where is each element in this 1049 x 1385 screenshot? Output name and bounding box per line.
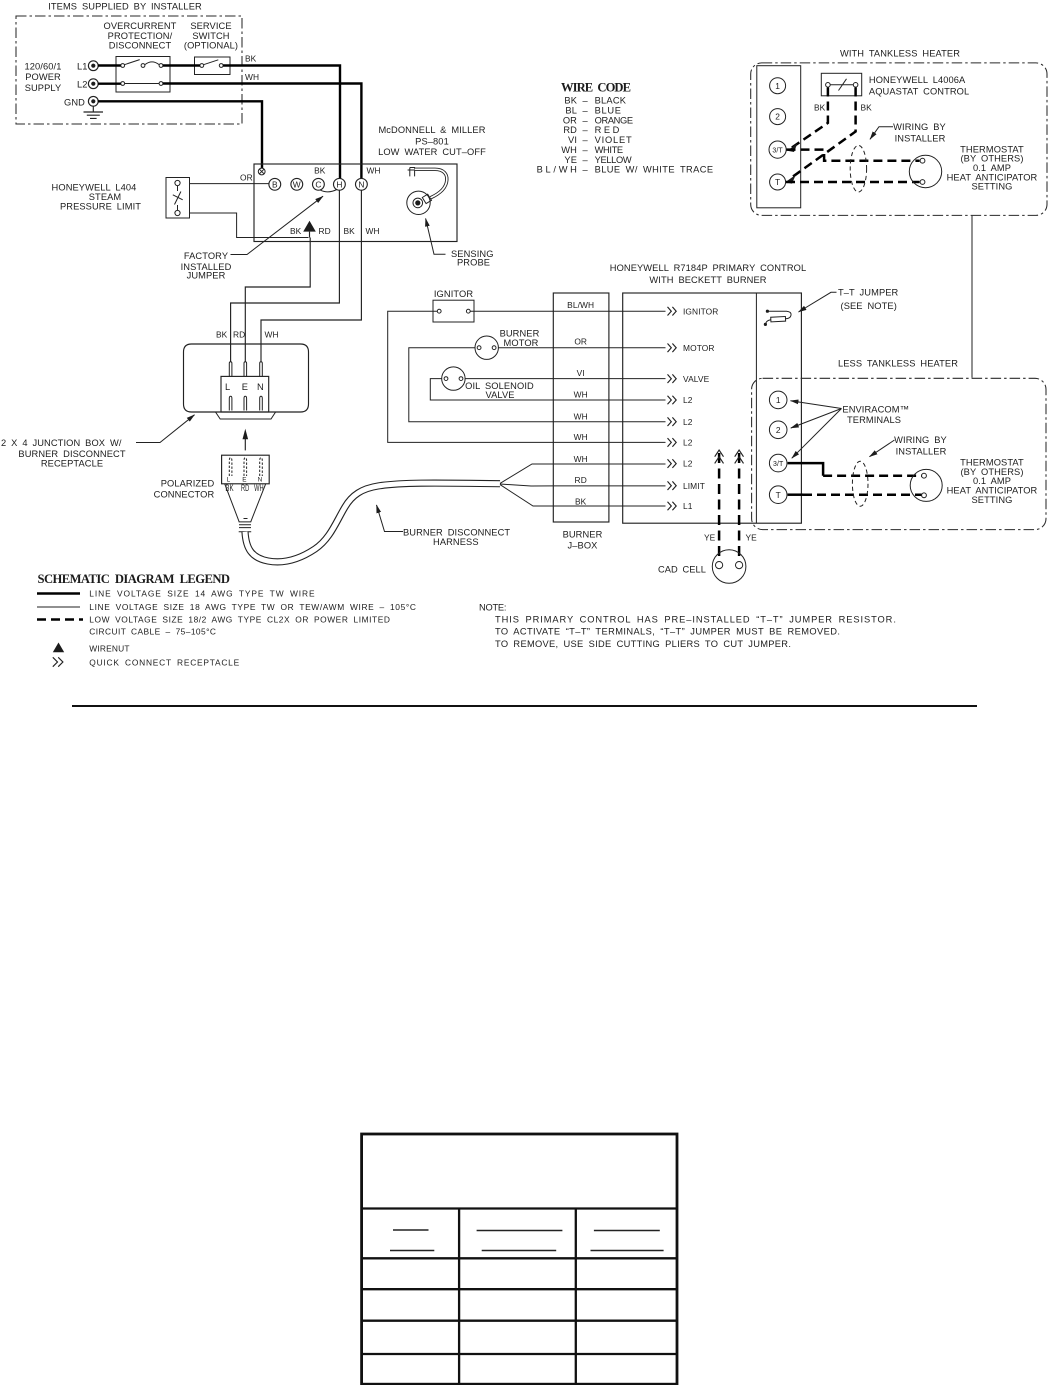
svg-text:TO ACTIVATE “T–T” TERMINALS, “: TO ACTIVATE “T–T” TERMINALS, “T–T” JUMPE…	[495, 627, 840, 637]
svg-text:BK: BK	[564, 96, 577, 106]
svg-text:H: H	[336, 179, 342, 189]
svg-text:T–T JUMPER: T–T JUMPER	[838, 288, 899, 298]
wire L2 thick	[98, 84, 362, 179]
svg-text:–: –	[583, 155, 589, 165]
svg-text:ENVIRACOM™: ENVIRACOM™	[842, 405, 909, 415]
oil solenoid valve	[442, 367, 465, 390]
svg-text:WIRENUT: WIRENUT	[89, 644, 129, 654]
svg-text:L2: L2	[683, 395, 693, 405]
wire T to thermostat (tankless)	[786, 181, 920, 184]
svg-text:INSTALLER: INSTALLER	[895, 134, 946, 144]
terminal C	[313, 178, 325, 190]
svg-text:CONNECTOR: CONNECTOR	[154, 490, 215, 500]
svg-text:BK: BK	[861, 103, 873, 113]
pressure limit switch U-L404	[166, 178, 190, 219]
svg-text:–: –	[583, 115, 589, 125]
svg-text:BURNER: BURNER	[500, 329, 540, 339]
svg-text:–: –	[583, 165, 589, 175]
svg-text:WHITE: WHITE	[595, 145, 624, 155]
strain relief	[239, 519, 252, 532]
svg-text:DISCONNECT: DISCONNECT	[109, 41, 172, 51]
svg-text:YELLOW: YELLOW	[595, 155, 632, 165]
svg-text:L1: L1	[683, 501, 693, 511]
svg-text:L2: L2	[683, 459, 693, 469]
svg-text:INSTALLER: INSTALLER	[896, 447, 947, 457]
svg-text:BL: BL	[565, 106, 577, 116]
svg-text:RD: RD	[575, 475, 587, 485]
svg-text:3/T: 3/T	[772, 148, 783, 155]
svg-text:1: 1	[776, 395, 781, 405]
svg-text:VALVE: VALVE	[485, 390, 514, 400]
svg-text:WH: WH	[245, 72, 259, 82]
svg-text:OR: OR	[574, 337, 587, 347]
mating arrow	[244, 439, 246, 451]
wire WH below N to junction box	[261, 190, 361, 362]
receptacle block	[221, 376, 269, 412]
svg-text:POLARIZED: POLARIZED	[161, 479, 215, 489]
svg-text:OVERCURRENT: OVERCURRENT	[104, 21, 177, 31]
legend thin line sample	[37, 606, 80, 608]
svg-text:L2: L2	[683, 417, 693, 427]
svg-text:VI: VI	[568, 135, 577, 145]
terminal T (less)	[769, 486, 787, 504]
legend wirenut symbol	[53, 643, 64, 653]
svg-text:BK: BK	[575, 496, 587, 506]
service switch box	[195, 57, 231, 75]
svg-text:WIRING BY: WIRING BY	[894, 435, 947, 445]
wire BK below H to junction box	[231, 190, 340, 362]
svg-text:(OPTIONAL): (OPTIONAL)	[184, 41, 238, 51]
svg-text:BL/WH: BL/WH	[567, 300, 594, 310]
svg-text:CIRCUIT CABLE – 75–105°C: CIRCUIT CABLE – 75–105°C	[89, 627, 216, 637]
svg-text:N: N	[358, 179, 364, 189]
svg-text:BK: BK	[245, 54, 257, 64]
svg-text:TERMINALS: TERMINALS	[847, 415, 901, 425]
wire 3/T to thermostat (less)	[788, 463, 824, 476]
quick connect VALVE	[668, 374, 677, 383]
thermostat (less)	[910, 469, 942, 501]
svg-text:SWITCH: SWITCH	[192, 31, 229, 41]
svg-text:HARNESS: HARNESS	[433, 537, 479, 547]
svg-text:VI: VI	[577, 368, 585, 378]
svg-text:SETTING: SETTING	[972, 182, 1013, 192]
svg-text:T: T	[776, 490, 781, 500]
leader from sensing probe	[426, 219, 446, 255]
installer boundary box	[16, 16, 242, 124]
svg-text:–: –	[583, 106, 589, 116]
svg-text:–: –	[583, 125, 589, 135]
svg-text:OR: OR	[240, 173, 253, 183]
svg-text:–: –	[583, 96, 589, 106]
connector slot E	[244, 458, 247, 476]
svg-text:LIMIT: LIMIT	[683, 481, 705, 491]
svg-text:–: –	[583, 135, 589, 145]
svg-text:HONEYWELL L4006A: HONEYWELL L4006A	[869, 75, 966, 85]
svg-text:B: B	[272, 179, 278, 189]
wire motor left loop to L2 row	[409, 348, 666, 422]
svg-text:BURNER: BURNER	[563, 530, 603, 540]
terminal N	[356, 178, 368, 190]
svg-text:WH: WH	[574, 454, 588, 464]
wire valve right to VI row	[465, 378, 665, 380]
svg-text:QUICK CONNECT RECEPTACLE: QUICK CONNECT RECEPTACLE	[89, 658, 239, 668]
receptacle pin L	[229, 362, 232, 377]
svg-text:WH: WH	[574, 412, 588, 422]
svg-text:WH: WH	[574, 389, 588, 399]
terminal 2 (tankless)	[770, 109, 786, 125]
receptacle pin N	[260, 362, 263, 377]
svg-text:E: E	[242, 382, 248, 392]
receptacle slot L	[229, 396, 232, 410]
legend dashed line sample	[37, 618, 83, 621]
svg-text:PROBE: PROBE	[457, 258, 490, 268]
svg-text:2: 2	[776, 425, 781, 435]
footer separator line	[72, 705, 977, 707]
svg-text:VALVE: VALVE	[683, 374, 710, 384]
svg-text:L: L	[225, 382, 230, 392]
less-tankless boundary box	[752, 378, 1046, 529]
svg-text:BLACK: BLACK	[595, 96, 627, 106]
wire L1 thick	[98, 66, 340, 179]
quick connect LIMIT	[668, 481, 677, 490]
leader to jumper	[231, 196, 324, 254]
svg-text:RD: RD	[563, 125, 577, 135]
svg-text:LINE VOLTAGE SIZE 14 AWG TYPE: LINE VOLTAGE SIZE 14 AWG TYPE TW WIRE	[89, 589, 315, 599]
ground screw node	[258, 168, 265, 175]
wire OR from L404 to B	[190, 183, 270, 185]
svg-text:YE: YE	[704, 533, 716, 543]
breaker switch L1	[121, 64, 125, 68]
svg-text:BLUE: BLUE	[595, 106, 622, 116]
svg-text:IGNITOR: IGNITOR	[434, 289, 473, 299]
svg-text:BLUE W/ WHITE TRACE: BLUE W/ WHITE TRACE	[595, 165, 714, 175]
svg-text:BK: BK	[314, 166, 326, 176]
wiring-by-installer ellipse (less)	[852, 461, 868, 506]
svg-text:PS–801: PS–801	[415, 137, 449, 147]
svg-text:J–BOX: J–BOX	[568, 541, 598, 551]
receptacle slot E	[244, 396, 247, 410]
legend thick line sample	[37, 592, 80, 594]
svg-text:WH: WH	[367, 166, 381, 176]
aquastat control box	[821, 73, 861, 96]
svg-text:SUPPLY: SUPPLY	[25, 83, 62, 93]
connector slot N	[260, 458, 263, 476]
svg-text:BK: BK	[344, 226, 356, 236]
quick connect L2 b	[668, 417, 677, 426]
svg-text:BURNER DISCONNECT: BURNER DISCONNECT	[18, 449, 125, 459]
terminal 1 (less)	[769, 391, 787, 409]
svg-text:WITH BECKETT BURNER: WITH BECKETT BURNER	[649, 275, 766, 285]
svg-text:T: T	[775, 177, 780, 187]
svg-text:WITH TANKLESS HEATER: WITH TANKLESS HEATER	[840, 49, 960, 59]
svg-text:FACTORY: FACTORY	[184, 251, 228, 261]
svg-text:POWER: POWER	[25, 72, 61, 82]
svg-text:2 X 4 JUNCTION BOX W/: 2 X 4 JUNCTION BOX W/	[1, 438, 122, 448]
terminal B	[269, 178, 281, 190]
svg-text:WIRE CODE: WIRE CODE	[561, 81, 632, 95]
with-tankless boundary box	[751, 63, 1047, 216]
SECTION: table	[362, 1134, 677, 1384]
quick connect IGNITOR	[668, 307, 677, 316]
svg-text:N: N	[257, 382, 264, 392]
svg-text:HONEYWELL R7184P PRIMARY CO: HONEYWELL R7184P PRIMARY CONTROL	[610, 263, 807, 273]
wiring-by-installer ellipse (tankless)	[850, 145, 866, 192]
polarized connector body	[222, 455, 270, 484]
terminal 1 (tankless)	[770, 78, 786, 94]
svg-text:VIOLET: VIOLET	[595, 135, 632, 145]
receptacle pin E	[244, 362, 247, 377]
svg-text:RECEPTACLE: RECEPTACLE	[41, 459, 103, 469]
svg-text:RED: RED	[595, 125, 620, 135]
svg-text:YE: YE	[564, 155, 577, 165]
cad cell wire YE left	[718, 453, 721, 561]
svg-text:BURNER DISCONNECT: BURNER DISCONNECT	[403, 528, 510, 538]
svg-text:(SEE NOTE): (SEE NOTE)	[841, 301, 897, 311]
burner j-box column	[553, 293, 609, 522]
receptacle base trapezoid	[216, 412, 276, 419]
svg-text:L2: L2	[77, 80, 88, 90]
r7184p inner divider	[755, 293, 757, 523]
quick connect L2 c	[668, 438, 677, 447]
wire ignitor right to BL/WH row	[470, 310, 665, 312]
svg-text:BK: BK	[814, 103, 826, 113]
svg-text:RD: RD	[319, 226, 331, 236]
svg-text:TO REMOVE, USE SIDE CUTTING PL: TO REMOVE, USE SIDE CUTTING PLIERS TO CU…	[495, 639, 791, 649]
r7184p control box U1	[623, 293, 802, 523]
terminal 3/T (tankless)	[769, 141, 786, 158]
svg-text:AQUASTAT CONTROL: AQUASTAT CONTROL	[869, 87, 969, 97]
leader to junction box	[136, 415, 195, 443]
quick connect MOTOR	[668, 344, 677, 353]
svg-text:WH: WH	[366, 226, 380, 236]
wire valve left loop to L2 row	[430, 379, 665, 400]
terminal W	[291, 178, 303, 190]
breaker link L2	[121, 82, 125, 86]
svg-text:OR: OR	[563, 115, 577, 125]
wires from harness rows	[500, 464, 666, 506]
svg-text:HONEYWELL L404: HONEYWELL L404	[52, 183, 137, 193]
svg-text:LINE VOLTAGE SIZE 18 AWG TYPE: LINE VOLTAGE SIZE 18 AWG TYPE TW OR TEW/…	[89, 602, 416, 612]
svg-text:LOW WATER CUT–OFF: LOW WATER CUT–OFF	[378, 147, 486, 157]
sensing probe body	[407, 191, 430, 214]
svg-text:SETTING: SETTING	[972, 495, 1013, 505]
cad cell	[712, 550, 746, 584]
svg-text:BK: BK	[290, 226, 302, 236]
svg-text:L1: L1	[77, 62, 88, 72]
sensing probe tube	[415, 169, 447, 198]
svg-text:IGNITOR: IGNITOR	[683, 306, 718, 316]
leader from t-t jumper	[799, 292, 837, 312]
wire RD from wirenut to junction box	[245, 238, 310, 362]
svg-text:3/T: 3/T	[773, 461, 784, 468]
svg-text:2: 2	[775, 112, 780, 122]
svg-text:GND: GND	[64, 97, 85, 107]
wire code entries	[537, 96, 714, 175]
svg-text:ITEMS SUPPLIED BY INSTALLER: ITEMS SUPPLIED BY INSTALLER	[48, 2, 202, 12]
connector slot L	[229, 458, 232, 476]
terminal H	[334, 178, 346, 190]
svg-text:MOTOR: MOTOR	[683, 343, 715, 353]
junction box shell	[184, 344, 309, 412]
svg-text:CAD CELL: CAD CELL	[658, 565, 706, 575]
svg-text:WH: WH	[561, 145, 577, 155]
svg-text:WH: WH	[265, 330, 279, 340]
cad cell wire YE right	[738, 453, 741, 561]
svg-text:YE: YE	[746, 533, 758, 543]
wire aquastat right to T	[790, 88, 856, 180]
wire GND thick	[98, 101, 262, 168]
wire 3/T to thermostat (tankless)	[787, 150, 920, 161]
svg-text:McDONNELL & MILLER: McDONNELL & MILLER	[378, 125, 485, 135]
terminal T (tankless)	[770, 174, 786, 190]
quick connect L1	[668, 502, 677, 511]
svg-text:LESS TANKLESS HEATER: LESS TANKLESS HEATER	[838, 359, 958, 369]
terminal 3/T (less)	[769, 454, 787, 472]
svg-text:RD: RD	[233, 330, 245, 340]
svg-text:C: C	[315, 179, 321, 189]
overcurrent breaker box	[116, 57, 170, 93]
svg-text:MOTOR: MOTOR	[504, 338, 539, 348]
sensing probe collar	[422, 194, 431, 203]
svg-text:PROTECTION/: PROTECTION/	[108, 31, 173, 41]
leader to ellipse (tankless)	[870, 127, 893, 140]
svg-text:JUMPER: JUMPER	[187, 271, 226, 281]
receptacle slot N	[260, 396, 263, 410]
svg-text:L2: L2	[683, 438, 693, 448]
wire ignitor left loop to L2 row	[388, 311, 666, 442]
svg-text:ORANGE: ORANGE	[595, 115, 634, 125]
terminal 2 (less)	[769, 421, 787, 439]
r7184p terminal strip (tankless view)	[757, 66, 801, 208]
service switch	[200, 64, 204, 68]
svg-text:BK: BK	[216, 330, 228, 340]
jumper arc C-H	[320, 190, 337, 192]
svg-text:PRESSURE LIMIT: PRESSURE LIMIT	[60, 202, 141, 212]
svg-text:WIRING BY: WIRING BY	[893, 122, 946, 132]
ground	[84, 106, 104, 118]
svg-text:1: 1	[775, 81, 780, 91]
svg-text:120/60/1: 120/60/1	[25, 62, 62, 72]
legend quick connect symbol	[53, 657, 63, 666]
harness cable	[245, 483, 500, 562]
svg-text:SCHEMATIC DIAGRAM LEGEND: SCHEMATIC DIAGRAM LEGEND	[38, 572, 231, 586]
quick connect L2 d	[668, 459, 677, 468]
svg-text:W: W	[293, 179, 301, 189]
sensing probe fitting	[408, 168, 417, 177]
svg-text:RD: RD	[241, 483, 249, 493]
ignitor box	[433, 300, 474, 322]
burner motor	[475, 336, 498, 359]
svg-text:–: –	[583, 145, 589, 155]
svg-text:NOTE:: NOTE:	[479, 603, 507, 613]
svg-text:WH: WH	[574, 432, 588, 442]
wirenut	[303, 221, 316, 232]
wire from L404 lower to wirenut	[190, 213, 309, 238]
svg-text:SERVICE: SERVICE	[190, 21, 231, 31]
leader to harness	[377, 505, 404, 532]
connector funnel	[225, 484, 266, 522]
svg-text:THIS PRIMARY CONTROL HAS PRE–I: THIS PRIMARY CONTROL HAS PRE–INSTALLED “…	[495, 615, 896, 625]
svg-text:LOW VOLTAGE SIZE 18/2 AWG TYPE: LOW VOLTAGE SIZE 18/2 AWG TYPE CL2X OR P…	[89, 615, 390, 625]
quick connect L2 a	[668, 396, 677, 405]
wire T to thermostat (less)	[788, 493, 803, 496]
connector line between boxes	[971, 216, 973, 378]
svg-text:STEAM: STEAM	[89, 192, 122, 202]
wire aquastat left to 3/T	[792, 88, 828, 148]
low water cutoff box	[254, 164, 457, 242]
t-t jumper component	[766, 310, 769, 313]
enviracom leaders	[791, 401, 842, 409]
leader to ellipse (less)	[870, 440, 895, 457]
thermostat (tankless)	[909, 155, 941, 187]
wire motor right to OR row	[498, 347, 665, 349]
